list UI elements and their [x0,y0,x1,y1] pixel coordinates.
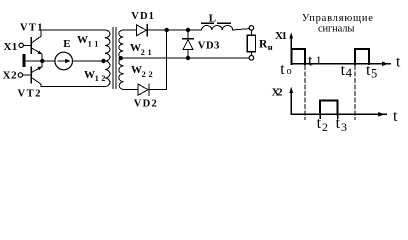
svg-text:Управляющие: Управляющие [302,13,373,24]
pulse X1 a [292,49,305,64]
svg-text:VD2: VD2 [134,99,157,110]
svg-text:2: 2 [322,120,328,134]
terminal load top [249,26,254,31]
svg-text:t: t [317,115,322,132]
wire VD1 to L [147,29,201,31]
svg-text:X1: X1 [4,41,18,53]
svg-text:X2: X2 [3,70,18,82]
svg-text:VT2: VT2 [18,88,41,99]
label t2 [317,115,328,134]
node secondary tap [119,56,123,60]
svg-text:VD1: VD1 [131,11,154,22]
pulse X2 [320,101,338,115]
label t1 [308,52,322,69]
diode VD1 [136,25,147,36]
node primary tap [101,59,105,63]
terminal X2 [18,73,22,77]
wire X1 base [23,44,30,46]
wire to resistor [250,30,252,35]
source E [55,52,73,70]
label t5 [366,62,377,80]
winding W22 [119,58,124,89]
label t0 [280,61,291,78]
svg-text:R: R [259,39,268,51]
svg-text:t: t [393,108,398,125]
label W21 [130,42,152,57]
svg-text:сигналы: сигналы [318,24,354,35]
svg-text:E: E [63,38,70,50]
svg-text:5: 5 [371,66,377,80]
node VD3 top [186,28,190,32]
pulse X1 b [355,49,369,64]
svg-text:1: 1 [316,53,322,67]
svg-text:t: t [336,115,341,132]
svg-text:t: t [280,61,285,78]
terminal load bottom [249,56,254,61]
tick t3 [337,114,339,118]
transformer core [112,28,114,89]
winding W11 [105,30,110,61]
dashed line t4 [354,66,356,120]
svg-text:4: 4 [346,66,353,80]
wire L to load [233,29,250,30]
wire bottom rail [121,57,250,59]
svg-text:3: 3 [341,120,347,134]
wire W22 to VD2 [124,89,138,91]
wire VT2 collector to W12 [41,86,105,88]
svg-text:o: o [287,66,292,77]
label W22 [131,64,153,79]
label t4 [341,62,353,80]
svg-text:W: W [131,64,142,76]
winding W21 [119,30,124,58]
wire W21 to VD1 [124,29,137,31]
svg-text:W: W [77,34,88,46]
svg-text:X2: X2 [272,86,284,98]
node emitter junction [40,59,44,63]
wire VD2 up to top rail [149,30,167,90]
emitter bus bar [23,54,26,67]
wire X2 base [23,74,31,76]
transistor VT2 [31,61,42,87]
svg-text:W: W [130,42,141,54]
svg-text:W: W [84,69,95,81]
node VD3 bottom [186,56,190,60]
terminal X1 [19,43,23,47]
svg-text:t: t [396,54,401,71]
svg-text:t: t [308,52,313,69]
diode VD2 [138,84,149,95]
axis X2 vertical [290,91,292,114]
axis X1 vertical [290,37,292,64]
svg-text:VD3: VD3 [198,40,220,51]
axis X1 horizontal [291,63,390,65]
winding W12 [105,61,110,87]
svg-text:X1: X1 [275,30,287,42]
inductor L [202,26,233,31]
wire E to primary tap [73,60,106,62]
tick t2 [319,114,321,118]
dashed line t1 [304,66,306,120]
label Rn [259,39,273,53]
wire resistor to terminal [250,52,252,55]
label W11 [77,34,98,49]
svg-text:н: н [268,42,273,52]
resistor Rn [247,35,255,52]
svg-text:L: L [209,13,216,25]
label heading [302,13,373,34]
node VD1-VD2 junction [165,28,169,32]
label t3 [336,115,347,134]
wire VT1 collector to W11 [41,29,105,31]
transistor VT1 [31,30,42,61]
diode VD3 [183,30,194,58]
wire common emitter [26,60,55,62]
label W12 [84,69,105,83]
axis X2 horizontal [291,113,386,115]
core of L [202,22,214,24]
svg-text:VT1: VT1 [20,23,43,34]
